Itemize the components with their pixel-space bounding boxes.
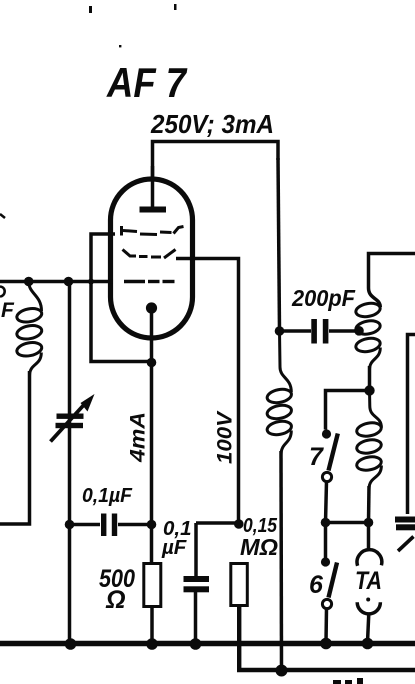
- svg-text:Ω: Ω: [105, 586, 126, 614]
- wire L1 bottom out to left: [0, 371, 30, 524]
- grid g2 dashes: [123, 250, 176, 259]
- svg-text:0,1µF: 0,1µF: [82, 484, 132, 507]
- node bus TA: [362, 638, 374, 650]
- node anode / 200pF: [275, 326, 285, 336]
- wire S6 to bus: [324, 609, 328, 643]
- stray mark left edge: [0, 214, 5, 218]
- wire cathode down: [150, 308, 154, 563]
- wire 200pF right: [329, 329, 357, 333]
- switch S7 bottom contact: [322, 472, 331, 481]
- svg-text:F: F: [1, 299, 15, 322]
- wire TA stem: [367, 523, 371, 551]
- wire top supply rail: [153, 142, 279, 178]
- inductor L1 lead bottom: [30, 353, 42, 377]
- wire TA to bus: [368, 614, 369, 643]
- node bus S6: [320, 638, 332, 650]
- svg-text:200pF: 200pF: [291, 285, 356, 311]
- variable capacitor VC1 plates: [57, 414, 84, 419]
- stray mark top left: [89, 6, 92, 13]
- wire anode supply drop to 200pF node: [278, 158, 280, 331]
- node S6 top: [321, 518, 331, 528]
- wire AVC line into grid3: [0, 280, 113, 284]
- svg-text:MΩ: MΩ: [240, 534, 278, 560]
- inductor L2 lead top: [280, 331, 292, 392]
- label partial µF at left edge: [0, 287, 5, 297]
- anode plate bar: [140, 207, 167, 213]
- stray mark top middle: [174, 4, 177, 10]
- wire C2 bottom stem: [194, 592, 198, 644]
- switch S6 blade: [329, 563, 338, 598]
- resistor R1 500 ohm body: [144, 564, 161, 607]
- node screen row: [234, 519, 244, 529]
- wire R2 bottom through bus to lower rail: [239, 606, 415, 671]
- svg-text:4mA: 4mA: [127, 412, 150, 463]
- svg-text:AF 7: AF 7: [106, 59, 187, 106]
- anode stem: [151, 166, 155, 207]
- wire L4 to TA node: [367, 486, 371, 523]
- connector TA bottom arc: [357, 602, 380, 614]
- capacitor C3 plates: [311, 319, 317, 344]
- wire L3 to junction: [368, 366, 372, 391]
- inductor L2 lead bottom: [281, 431, 291, 456]
- stray text bottom edge: [333, 680, 341, 684]
- svg-text:TA: TA: [355, 567, 382, 595]
- wire screen node row: [196, 521, 239, 525]
- wire cathode cap row left: [70, 523, 101, 527]
- wire S7 to row: [326, 482, 327, 523]
- switch S7 blade: [329, 434, 338, 471]
- node bus C2: [190, 638, 202, 650]
- wire cathode cap row right: [118, 523, 152, 527]
- node grid1 crossing: [88, 279, 94, 285]
- capacitor C2 plates: [184, 576, 210, 582]
- variable capacitor VC2 arrow part: [398, 537, 414, 552]
- inductor L1 loops: [16, 307, 43, 358]
- svg-text:100V: 100V: [214, 410, 237, 464]
- inductor L4 loops: [356, 421, 383, 472]
- switch S6 top contact: [321, 557, 330, 566]
- node TA top: [364, 518, 374, 528]
- wire grid2 exit to screen node: [176, 259, 239, 522]
- grid g3 dashes: [124, 280, 175, 283]
- wire 200pF left: [280, 329, 312, 333]
- svg-text:6: 6: [309, 571, 324, 599]
- wire L3 top feed: [369, 254, 415, 308]
- inductor L4 lead bottom: [369, 466, 381, 490]
- svg-text:250V; 3mA: 250V; 3mA: [150, 109, 274, 139]
- inductor L3 loops: [355, 301, 382, 353]
- node bus VC line: [65, 638, 77, 650]
- inductor L4 lead top: [370, 391, 382, 428]
- inductor L3 lead bottom: [370, 348, 381, 371]
- resistor R2 0,15M body: [231, 564, 248, 606]
- capacitor C1 plates: [101, 514, 106, 537]
- node L1 top: [24, 277, 34, 287]
- cathode dot: [146, 302, 157, 313]
- variable capacitor VC1 arrow: [51, 403, 87, 442]
- wire C2 top stem: [194, 523, 198, 577]
- node cathode return junction: [147, 358, 157, 368]
- wire S6 feed: [324, 523, 328, 559]
- wire band switch row: [326, 391, 370, 430]
- ground bus: [0, 641, 415, 646]
- variable capacitor VC2 plates: [395, 517, 415, 523]
- wire TA row: [326, 521, 369, 525]
- tube U1 envelope: [111, 179, 193, 338]
- wire grid1 return branch: [91, 234, 152, 362]
- node bus R1: [146, 638, 158, 650]
- wire right edge tuned circuit feed: [408, 335, 415, 515]
- svg-text:7: 7: [309, 443, 324, 471]
- inductor L1 lead top: [29, 282, 42, 312]
- connector TA bottom dot: [366, 598, 370, 602]
- wire tuning cap vertical: [68, 282, 72, 645]
- node cathode / C1: [147, 520, 157, 530]
- switch S7 top contact: [322, 429, 331, 438]
- node L3 / L4 junction: [364, 385, 374, 395]
- switch S6 bottom contact: [322, 599, 331, 608]
- stray dot below AF7: [119, 45, 121, 47]
- inductor L2 loops: [266, 387, 293, 436]
- node coil tap: [354, 326, 364, 336]
- wire L2 down through bus: [279, 451, 283, 670]
- node lower rail / L2: [276, 665, 288, 677]
- node VC1 line / C1: [65, 520, 75, 530]
- wire R1 bottom: [150, 605, 154, 644]
- connector TA top arc: [357, 550, 382, 566]
- grid g1 dashes: [122, 226, 184, 236]
- node tuning cap top: [64, 277, 74, 287]
- svg-text:µF: µF: [161, 536, 187, 559]
